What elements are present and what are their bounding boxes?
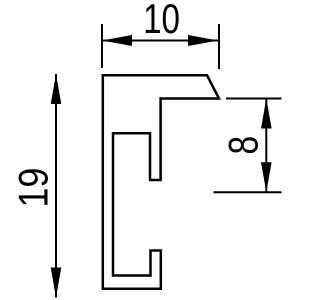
frame profile cross-section outline bbox=[103, 75, 219, 289]
dimension 8: bottom reference line bbox=[214, 191, 282, 193]
dimension 8: top reference line bbox=[226, 98, 282, 100]
dimension 19: top arrowhead bbox=[51, 74, 62, 104]
svg-text:19: 19 bbox=[11, 168, 57, 208]
svg-text:10: 10 bbox=[143, 0, 180, 43]
dimension 19: dimension line bbox=[55, 74, 57, 298]
dimension 10: dimension line bbox=[102, 40, 219, 42]
dimension 8: bottom arrowhead bbox=[261, 162, 272, 192]
dimension 8: dimension line bbox=[265, 99, 267, 193]
dimension 10: right arrowhead bbox=[188, 35, 218, 46]
dimension 8: top arrowhead bbox=[261, 99, 272, 129]
svg-text:8: 8 bbox=[221, 136, 267, 155]
dimension 10: right extension line bbox=[218, 24, 220, 69]
dimension 10: left arrowhead bbox=[102, 35, 132, 46]
dimension 10: left extension line bbox=[101, 24, 103, 68]
dimension 19: bottom arrowhead bbox=[51, 268, 62, 298]
